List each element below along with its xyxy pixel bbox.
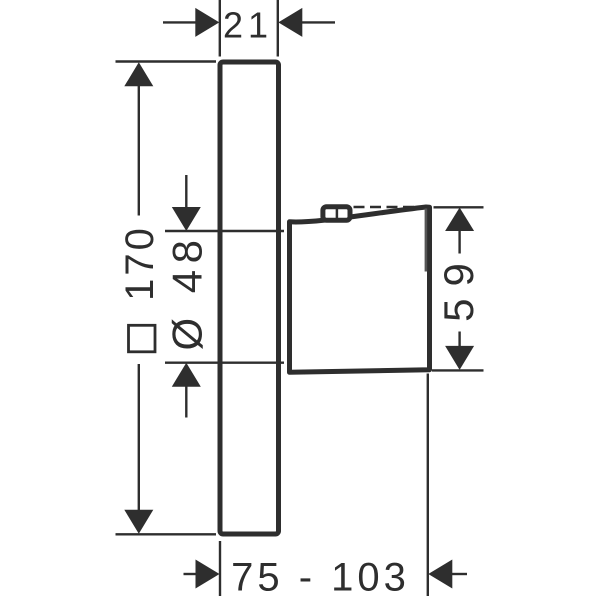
dim 48 bottom arrowhead (172, 363, 201, 387)
dim 48 top arrowhead (172, 207, 201, 231)
dim 21 left leader line (163, 21, 198, 23)
dim 170 bottom extension line (116, 533, 217, 535)
svg-text:Ø 48: Ø 48 (164, 233, 211, 350)
dim 48 bottom leader line (185, 386, 187, 418)
dim 21 right extension line (277, 0, 279, 57)
dim 75-103 right leader line (452, 573, 467, 575)
dim 21 left extension line (219, 0, 221, 57)
dim 21 right arrowhead (278, 8, 302, 37)
dim 170 top arrowhead (124, 62, 153, 86)
dim 170 line lower segment (138, 364, 140, 510)
dim 75-103 left extension line (219, 541, 221, 596)
backplate outline (220, 62, 279, 534)
dim 170 top extension line (116, 60, 217, 62)
dim 170 bottom arrowhead (124, 510, 153, 534)
dim 59 line lower segment (458, 332, 460, 348)
dim 75-103 right arrowhead (428, 560, 452, 589)
svg-text:170: 170 (118, 225, 162, 301)
dim 59 line upper segment (458, 231, 460, 254)
safety button divider (336, 207, 339, 221)
dim 170 line upper segment (138, 86, 140, 216)
dim 59 top arrowhead (445, 208, 474, 232)
dim 75-103 left leader line (184, 573, 199, 575)
handle body outline (290, 207, 430, 372)
dim 59 top extension line (434, 206, 484, 208)
dim 48 bottom tick line (165, 362, 284, 364)
svg-text:59: 59 (435, 251, 482, 322)
dim 59 bottom arrowhead (445, 346, 474, 370)
dim 75-103 left arrowhead (196, 560, 220, 589)
dim 48 top tick line (165, 230, 284, 232)
handle inner edge line (425, 209, 428, 272)
dim 21 right leader line (302, 21, 335, 23)
dim 75-103 right extension line (427, 374, 429, 597)
safety button outline (323, 207, 350, 221)
dim 59 bottom extension line (432, 369, 484, 371)
dim 48 top leader line (185, 175, 187, 208)
svg-text:75 - 103: 75 - 103 (231, 556, 410, 600)
square symbol (129, 325, 156, 352)
handle top hidden dashed line (354, 206, 423, 209)
svg-text:21: 21 (223, 5, 273, 46)
dim 21 left arrowhead (195, 8, 219, 37)
